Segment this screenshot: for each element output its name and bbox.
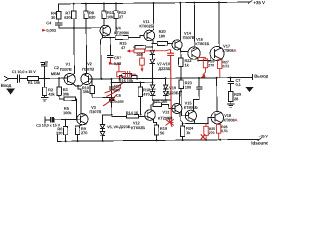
red arrow mod down	[140, 69, 143, 72]
resistor R14	[112, 115, 145, 119]
svg-text:C1 10,0 х 15 V: C1 10,0 х 15 V	[12, 70, 37, 74]
transistor V14	[172, 40, 182, 50]
red arrow fb mod left	[127, 49, 131, 52]
wire V1 collector	[73, 74, 74, 75]
svg-text:47: 47	[121, 45, 126, 50]
transistor V18	[211, 111, 224, 124]
transistor V12	[145, 110, 156, 121]
svg-text:КТ209М: КТ209М	[114, 30, 129, 35]
svg-text:П307В: П307В	[60, 67, 72, 72]
capacitor C4	[56, 23, 62, 28]
resistor R12	[114, 3, 119, 35]
wire V18 collector to output	[216, 78, 218, 112]
resistor R17	[134, 45, 153, 49]
resistor R5	[64, 97, 77, 120]
transistor V2	[81, 73, 92, 84]
resistor Rmod vertical	[140, 53, 145, 69]
wire V16 collector to rail column	[192, 3, 194, 49]
wire node V4 base	[59, 27, 100, 29]
wire V14 emitter node	[180, 49, 188, 58]
capacitor C2	[41, 62, 48, 78]
resistor R4	[56, 4, 61, 23]
diode V9	[150, 78, 155, 89]
svg-text:С5?: С5?	[114, 55, 122, 60]
resistor R24	[180, 124, 185, 140]
svg-text:330: 330	[56, 130, 63, 135]
svg-text:180: 180	[159, 33, 166, 38]
svg-text:0,003: 0,003	[46, 28, 56, 33]
svg-text:V13: V13	[162, 109, 170, 114]
wire V13 emitter	[180, 113, 182, 124]
wire V12 collector to R21	[151, 105, 153, 111]
svg-text:Выход: Выход	[254, 74, 268, 79]
transistor V4	[100, 25, 111, 36]
svg-text:П307В: П307В	[89, 109, 101, 114]
diode V7	[150, 44, 155, 55]
svg-text:C4: C4	[46, 20, 52, 25]
ground chassis R2	[41, 97, 48, 100]
wire V12 emitter to R19	[154, 119, 157, 125]
resistor R16	[122, 74, 132, 78]
svg-text:R1 10k: R1 10k	[28, 80, 41, 85]
resistor R26 red	[198, 57, 208, 75]
resistor R21	[153, 103, 172, 109]
terminal +35V	[248, 1, 252, 4]
svg-text:П307В: П307В	[183, 35, 195, 40]
wire V14 collector to rail	[180, 3, 181, 41]
svg-text:620: 620	[64, 15, 71, 20]
svg-text:Д223Б: Д223Б	[158, 66, 170, 71]
ground chassis input	[7, 89, 14, 94]
capacitor red C mod pair	[117, 71, 134, 78]
resistor R6	[63, 120, 68, 142]
diode V5	[100, 120, 104, 129]
resistor R19	[154, 125, 159, 140]
capacitor C3	[45, 117, 77, 123]
svg-text:КТ801Б: КТ801Б	[195, 41, 209, 46]
wire top +35V rail	[59, 2, 250, 4]
capacitor C5	[107, 38, 113, 58]
resistor R23	[179, 80, 185, 116]
svg-text:270: 270	[208, 63, 214, 67]
svg-text:30k: 30k	[63, 91, 70, 96]
svg-text:КТ602Б: КТ602Б	[131, 125, 145, 130]
wire input	[8, 78, 17, 80]
transistor V15	[185, 110, 196, 121]
resistor R13 crossed out	[110, 87, 114, 89]
svg-text:ldsound.ru: ldsound.ru	[251, 140, 268, 145]
svg-text:R21 160: R21 160	[153, 99, 168, 104]
wire V1 V2 emitters junction	[73, 84, 83, 114]
resistor R10	[90, 79, 112, 98]
svg-text:0,1: 0,1	[235, 82, 241, 87]
ground chassis R29	[227, 104, 234, 107]
svg-text:V1: V1	[65, 61, 71, 66]
wire V4 collector down	[101, 35, 116, 79]
svg-text:270: 270	[81, 130, 88, 135]
ground chassis output	[247, 87, 253, 91]
svg-text:28: 28	[234, 96, 239, 101]
resistor R2	[42, 78, 47, 97]
wire V2 collector	[85, 73, 86, 74]
wire output feedback line	[92, 78, 231, 79]
resistor Rmod 360	[134, 49, 145, 53]
svg-text:–35 V: –35 V	[259, 135, 268, 139]
diode V6	[100, 128, 105, 140]
svg-text:1k: 1k	[184, 62, 189, 67]
red scribble V13	[165, 118, 173, 127]
svg-text:0,51: 0,51	[223, 64, 230, 68]
svg-text:27: 27	[119, 14, 124, 19]
svg-text:V5, V6-Д223Б: V5, V6-Д223Б	[107, 125, 131, 129]
wire V15 emitter bus	[182, 118, 211, 124]
svg-text:C6: C6	[116, 93, 122, 98]
resistor R25 red	[204, 123, 209, 139]
red tick C9 bottom	[169, 121, 173, 123]
resistor R18	[138, 82, 143, 114]
svg-text:10,0х16В: 10,0х16В	[110, 100, 125, 104]
wire R16 branch	[120, 75, 138, 78]
svg-text:КТ808А: КТ808А	[223, 117, 237, 122]
transistor V3	[77, 114, 89, 125]
resistor R11	[102, 3, 107, 25]
wire diode bottoms join	[153, 100, 172, 103]
wire V5V6 top to bias node	[102, 115, 111, 120]
svg-text:R14 16: R14 16	[126, 110, 139, 115]
diode V10	[150, 89, 155, 100]
capacitor C5 red branch	[110, 58, 136, 75]
resistor R3	[57, 78, 64, 99]
terminal output	[252, 74, 254, 79]
svg-text:100k: 100k	[63, 110, 72, 115]
terminal input	[5, 76, 9, 81]
resistor R29	[228, 92, 233, 104]
svg-text:Вход: Вход	[1, 83, 12, 88]
svg-text:270: 270	[209, 131, 215, 135]
svg-text:100: 100	[185, 85, 192, 90]
capacitor C7	[228, 78, 234, 92]
red strike arc over 680	[106, 88, 121, 97]
resistor R20	[157, 41, 173, 45]
svg-text:+35 V: +35 V	[253, 0, 266, 5]
diode V19b	[163, 89, 168, 100]
transistor V16	[188, 47, 201, 60]
wire bottom -35V rail	[58, 133, 260, 142]
resistor R7	[72, 4, 77, 74]
labels red	[51, 51, 230, 137]
svg-text:Д223Б: Д223Б	[167, 90, 179, 95]
svg-text:П307В: П307В	[82, 67, 94, 72]
transistor V1	[64, 73, 75, 84]
resistor R28 red	[216, 123, 221, 140]
svg-text:10k: 10k	[107, 14, 114, 19]
resistor R8	[84, 4, 89, 74]
transistor V11	[144, 30, 155, 41]
resistor R1	[28, 76, 65, 80]
wire V11 collector	[152, 3, 154, 31]
red strike arc over C6	[103, 95, 117, 106]
svg-text:30: 30	[51, 15, 56, 20]
red wire fb mod	[130, 49, 171, 51]
resistor R22	[179, 58, 184, 80]
svg-text:КТ808А: КТ808А	[222, 48, 236, 53]
svg-text:V2: V2	[87, 61, 93, 66]
svg-text:КТ801Б: КТ801Б	[184, 105, 198, 110]
svg-text:КТ602Б: КТ602Б	[139, 23, 153, 28]
capacitor C1	[17, 75, 27, 82]
wire V13 collector	[180, 92, 182, 105]
wire bias bus	[111, 78, 152, 114]
resistor R27 red	[217, 59, 222, 78]
svg-text:0,08: 0,08	[114, 61, 122, 66]
resistor R9	[75, 124, 86, 141]
red capacitor C9	[167, 49, 175, 123]
capacitor C6	[109, 98, 115, 101]
svg-text:360: 360	[136, 52, 143, 57]
capacitor C8 bootstrap	[193, 78, 202, 110]
red arrow C5	[109, 62, 113, 65]
resistor R15	[115, 35, 144, 39]
svg-text:R16 10k: R16 10k	[119, 78, 134, 83]
wire V16 emitter to V17 base	[198, 56, 211, 60]
red arrow C4	[42, 29, 46, 32]
svg-text:39k: 39k	[83, 89, 90, 94]
red modification overlay	[42, 27, 222, 141]
diode V8	[150, 54, 155, 78]
svg-text:КТ208М: КТ208М	[158, 115, 173, 120]
svg-text:1k: 1k	[186, 130, 191, 135]
labels black	[0, 0, 269, 141]
diode V19a	[163, 78, 168, 89]
svg-text:620: 620	[89, 15, 96, 20]
svg-text:56: 56	[160, 130, 165, 135]
wire output to terminal	[231, 76, 253, 78]
svg-text:0,51: 0,51	[221, 129, 228, 133]
red strike arc over R13	[104, 83, 122, 93]
wire V3 collector	[81, 114, 86, 115]
transistor V17	[210, 46, 224, 60]
svg-text:43k: 43k	[48, 92, 55, 97]
red X mark bottom	[201, 134, 205, 139]
wire V11 emitter to R20	[153, 40, 157, 44]
terminal -35V	[258, 138, 262, 141]
red arrow R26	[201, 74, 206, 78]
svg-text:470: 470	[143, 92, 150, 97]
transistor V13	[172, 103, 182, 113]
svg-text:МБМ: МБМ	[51, 71, 61, 76]
wire V17 collector column	[219, 2, 221, 48]
